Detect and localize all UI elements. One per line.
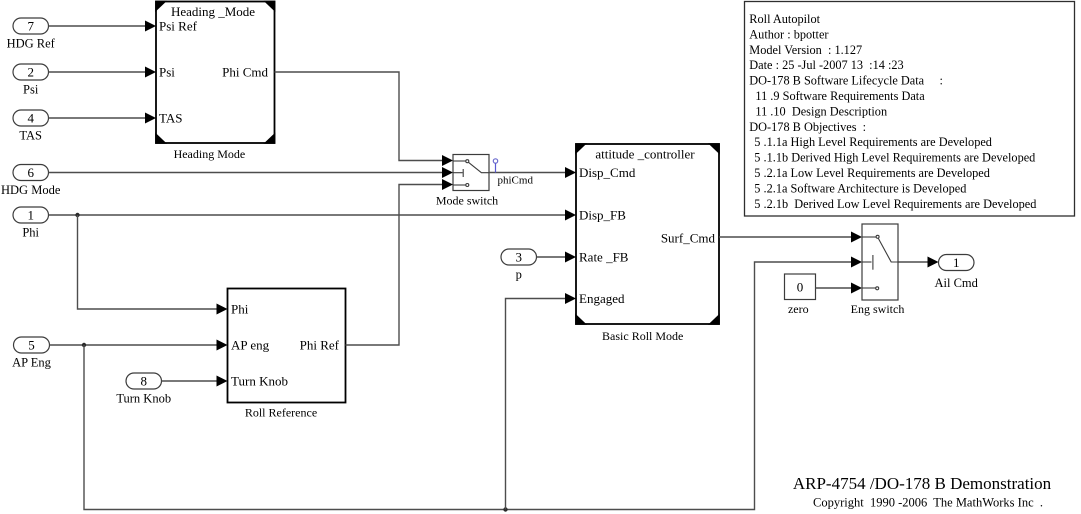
svg-text:Psi: Psi [159,65,175,80]
switch block Eng switch [851,224,905,316]
inport 1 Phi [13,207,49,239]
svg-text:Roll Reference: Roll Reference [245,405,317,419]
wire port4 to TAS [49,113,157,124]
svg-text:6: 6 [27,165,34,180]
svg-text:3: 3 [515,250,522,265]
svg-text:Turn Knob: Turn Knob [231,374,288,389]
svg-text:Disp_FB: Disp_FB [579,208,626,223]
inport 3 p [501,249,537,281]
svg-text:zero: zero [788,302,809,316]
svg-text:Ail Cmd: Ail Cmd [934,276,978,290]
inport 6 HDG Mode [1,165,61,197]
svg-text:TAS: TAS [19,128,42,142]
svg-text:5 .1.1a High Level Requirement: 5 .1.1a High Level Requirements are Deve… [754,135,992,149]
wire port6 to Mode switch middle input [49,167,454,178]
svg-text:5 .2.1b Derived Low Level Req: 5 .2.1b Derived Low Level Requirements a… [754,197,1036,211]
svg-text:Phi Cmd: Phi Cmd [222,65,268,80]
svg-text:11 .9 Software Requirements Da: 11 .9 Software Requirements Data [755,89,925,103]
svg-text:phiCmd: phiCmd [498,175,534,187]
wire AP Eng branch down along bottom to Eng switch middle input [84,257,862,510]
inport 8 Turn Knob [116,373,171,405]
wire port7 to Psi Ref [49,21,157,32]
wire Phi Ref to Mode switch bottom input [346,179,454,345]
wire port8 to Turn Knob input [162,376,228,387]
svg-text:4: 4 [27,111,34,126]
svg-text:Psi: Psi [23,82,39,96]
inport 4 TAS [13,110,49,142]
svg-text:DO-178 B Software Lifecycle Da: DO-178 B Software Lifecycle Data : [749,74,943,88]
svg-text:Date : 25 -Jul -2007 13 :14 :: Date : 25 -Jul -2007 13 :14 :23 [749,58,903,72]
svg-text:5 .2.1a Software Architecture: 5 .2.1a Software Architecture is Develop… [754,181,966,195]
svg-text:HDG Mode: HDG Mode [1,183,61,197]
svg-text:HDG Ref: HDG Ref [7,36,56,50]
node junction Phi branch [75,213,79,217]
annotation box model info [745,2,1075,217]
wire Phi to Disp_FB [49,210,577,221]
svg-text:Disp_Cmd: Disp_Cmd [579,165,636,180]
constant block zero [785,274,816,316]
svg-text:Eng switch: Eng switch [851,302,905,316]
inport 2 Psi [13,64,49,96]
svg-text:1: 1 [27,208,34,223]
svg-text:5 .1.1b Derived High Level Req: 5 .1.1b Derived High Level Requirements … [754,151,1035,165]
svg-text:AP eng: AP eng [231,338,270,353]
svg-text:Phi: Phi [22,225,39,239]
svg-text:ARP-4754 /DO-178 B Demonstrati: ARP-4754 /DO-178 B Demonstration [793,474,1052,493]
svg-text:0: 0 [797,280,804,295]
svg-text:2: 2 [27,65,34,80]
inport 5 AP Eng [12,337,52,369]
svg-text:Mode switch: Mode switch [436,193,498,207]
wire Phi Cmd to Mode switch top input [275,72,454,166]
subsystem Basic Roll Mode [575,143,720,343]
svg-text:Phi: Phi [231,302,249,317]
wire Surf_Cmd to Eng switch top input [719,232,862,243]
svg-text:Phi Ref: Phi Ref [300,338,340,353]
inport 7 HDG Ref [7,18,56,50]
wire Mode switch output to Disp_Cmd [489,167,576,178]
svg-text:Basic Roll Mode: Basic Roll Mode [602,329,683,343]
node junction AP Eng branch [82,343,86,347]
svg-text:Psi Ref: Psi Ref [159,19,198,34]
wire AP Eng to Roll Reference AP eng [50,340,228,351]
wire zero to Eng switch bottom input [816,283,863,294]
svg-text:Heading _Mode: Heading _Mode [171,4,255,19]
svg-text:Rate _FB: Rate _FB [579,250,629,265]
svg-text:Turn Knob: Turn Knob [116,391,171,405]
svg-text:Heading Mode: Heading Mode [174,147,246,161]
wire Eng switch output to Ail Cmd [899,257,939,268]
svg-text:attitude _controller: attitude _controller [595,146,695,161]
subsystem Heading Mode [155,1,275,161]
wire Engaged branch up to Basic Roll Mode Engaged [506,293,577,510]
svg-text:Copyright 1990 -2006 The Mat: Copyright 1990 -2006 The MathWorks Inc . [813,496,1043,510]
svg-text:AP Eng: AP Eng [12,355,52,369]
switch block Mode switch [436,155,498,208]
svg-text:1: 1 [953,255,960,270]
wire port3 to Rate_FB [537,252,577,263]
svg-text:DO-178 B Objectives :: DO-178 B Objectives : [749,120,866,134]
svg-text:5: 5 [28,338,35,353]
svg-text:p: p [516,267,522,281]
subsystem Roll Reference [228,289,346,420]
svg-text:7: 7 [27,19,34,34]
svg-text:11 .10 Design Description: 11 .10 Design Description [755,104,887,118]
svg-text:Engaged: Engaged [579,291,625,306]
svg-text:TAS: TAS [159,111,183,126]
node junction Engaged branch [503,507,507,511]
svg-text:8: 8 [140,374,147,389]
svg-text:Model Version : 1.127: Model Version : 1.127 [749,43,862,57]
outport 1 Ail Cmd [934,255,978,291]
svg-text:Author : bpotter: Author : bpotter [749,27,828,41]
wire Phi branch down to Roll Reference Phi input [78,215,228,315]
wire port2 to Psi [49,67,157,78]
svg-text:Surf_Cmd: Surf_Cmd [661,231,716,246]
test point marker phiCmd [493,159,497,173]
svg-text:Roll Autopilot: Roll Autopilot [749,12,820,26]
svg-text:5 .2.1a Low Level Requirements: 5 .2.1a Low Level Requirements are Devel… [754,166,990,180]
